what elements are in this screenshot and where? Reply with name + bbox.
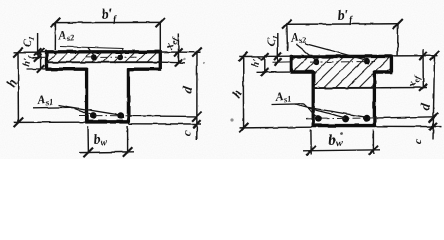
scan speck 1 [203, 62, 205, 64]
flange top extension to left (left fig) [14, 51, 47, 53]
left section: flange outline [47, 52, 161, 69]
right section: compression-zone hatch (flange + web part) [292, 56, 392, 88]
dimension C1 (left): ticks [34, 48, 42, 56]
dimension h'f (left): ticks [37, 48, 45, 56]
As2 bar axis dash-dot (right fig) [310, 61, 375, 64]
scan speck 2 [230, 118, 233, 121]
leader As1 to bar1 (right) [303, 104, 318, 118]
left section: web right edge [127, 68, 130, 123]
leader As1 to bar2 (right) [295, 105, 345, 118]
flange bottom extension to left (right fig) [257, 71, 291, 73]
bottom extension to right (right fig) [376, 125, 441, 127]
rebar As2 bar 1 (left fig) [91, 54, 97, 60]
dimension bw (right): left extension [310, 130, 312, 155]
dimension b'f (right): dim line [287, 23, 398, 26]
dimension b'f (left): left extension [54, 23, 56, 50]
As1 axis extension to right (right fig) [376, 117, 433, 118]
dimension C1 (right): line [277, 33, 279, 62]
rebar As1 bar 2 (left fig) [117, 112, 124, 119]
right section: flange bottom left segment [290, 70, 314, 73]
As2 bar axis dash-dot (left fig) [86, 56, 136, 58]
rebar As1 bar 1 (left fig) [90, 112, 97, 119]
rebar As1 bar 3 (right fig) [363, 115, 370, 122]
dimension b'f (right): end ticks [282, 20, 292, 30]
rebar As1 bar 1 (right fig) [315, 115, 322, 122]
right section: flange outline [291, 56, 391, 72]
dimension bw (right): ticks [306, 146, 316, 156]
scan speck 4 [183, 58, 185, 60]
dimension bw (left): ticks [83, 148, 93, 158]
leader As2 branch (left) [88, 48, 94, 56]
leader As1 to bar1 (left) [71, 107, 92, 114]
leader As2 to bar2 (right) [305, 44, 366, 61]
dimension c (left): tick [193, 120, 201, 128]
dimension h (left): line [17, 52, 19, 122]
neutral axis extension to right (left fig) [161, 61, 185, 64]
dimension b'f (right): left extension [286, 24, 289, 51]
dimension h'f (right): line [264, 56, 266, 72]
rebar As2 bar 1 (right fig) [313, 59, 319, 65]
dimension x_ef (right): ticks [419, 52, 427, 60]
As1 axis extension to right (left fig) [129, 115, 197, 118]
dimension C1 (right): ticks [274, 53, 282, 61]
left section: web left edge [85, 68, 88, 123]
left section: flange bottom right segment [127, 67, 161, 70]
dimension bw (left): left extension [87, 126, 89, 154]
dimension h'f (right): ticks [261, 53, 269, 61]
bottom extension to left (left fig) [14, 121, 86, 123]
right section: flange bottom right segment [374, 70, 393, 73]
As1 bar axis dash-dot (left fig) [79, 115, 132, 117]
dimension bw (left): right extension [127, 126, 129, 154]
flange bottom extension to left (left fig) [27, 68, 47, 70]
bottom extension to left (right fig) [239, 126, 312, 129]
dimension d (right): ticks [430, 51, 440, 61]
dimension C1 (left): line [37, 33, 39, 58]
left section: web bottom edge [85, 120, 129, 124]
right section: web right edge [373, 71, 376, 127]
right section: web bottom edge [312, 124, 376, 127]
dimension bw (right): dim line [303, 150, 380, 151]
dimension b'f (left): dim line [56, 21, 161, 23]
dimension b'f (left): right extension [159, 22, 161, 51]
leader As1 to bar2 (left) [58, 105, 120, 115]
dimension h (right): line [242, 56, 244, 127]
dimension b'f (right): right extension [397, 24, 399, 56]
right section: web left edge [312, 71, 315, 127]
dimension d (left): ticks [192, 48, 202, 58]
dimension C1 (right): axis extension [273, 61, 292, 63]
dimension h (left): ticks [13, 48, 23, 58]
dimension x_ef (left): ticks [175, 48, 183, 56]
dimension x_ef (left): line [177, 34, 179, 63]
right section: neutral axis line x_ef [313, 87, 376, 89]
dimension d/c vertical line (left fig) [196, 52, 198, 140]
left section: neutral axis line x_ef [46, 61, 161, 63]
dimension b'f (left): end ticks [51, 18, 61, 28]
rebar As2 bar 2 (right fig) [364, 58, 370, 64]
dimension c (right): tick [429, 123, 437, 131]
leader As1 to bar3 (right) [303, 107, 366, 118]
leader As1 underline (left) [33, 106, 71, 109]
left section: compression-zone hatch [47, 52, 161, 62]
neutral axis extension to right (right fig) [375, 87, 427, 89]
flange top extension to left (right fig) [239, 55, 291, 57]
dimension x_ef (right): line [422, 49, 424, 88]
As1 bar axis dash-dot (right fig) [306, 118, 378, 119]
flange top extension to right (left fig) [160, 51, 201, 53]
flange top extension to right (right fig) [391, 55, 438, 57]
rebar As2 bar 2 (left fig) [118, 54, 124, 60]
rebar As1 bar 2 (right fig) [342, 115, 349, 122]
dimension C1 (left): axis extension [33, 57, 47, 59]
dimension h'f (left): line [40, 52, 42, 69]
dimension h (right): ticks [238, 52, 248, 62]
bottom extension to right (left fig) [129, 123, 201, 125]
dimension bw (right): right extension [372, 130, 374, 155]
scan speck 5 [317, 86, 319, 88]
leader As2 to bar1 (right) [296, 44, 316, 60]
scan speck 3 [340, 132, 343, 135]
leader As2 main (left) [60, 47, 123, 56]
leader As1 underline (right) [272, 103, 303, 106]
left section: flange bottom left segment [46, 67, 88, 70]
dimension d/c vertical line (right fig) [433, 56, 435, 140]
dimension bw (left): dim line [79, 151, 134, 154]
